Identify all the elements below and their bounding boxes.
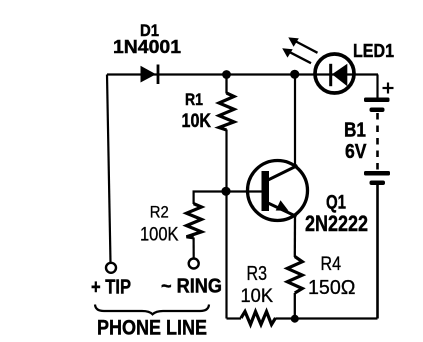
wire base xyxy=(227,190,263,192)
wire emitter to R4 xyxy=(294,214,297,257)
wire R2 to RING xyxy=(193,238,195,259)
svg-text:10K: 10K xyxy=(241,285,274,307)
wire R4 bottom xyxy=(294,293,296,319)
svg-text:PHONE LINE: PHONE LINE xyxy=(97,317,207,340)
node dot R1 top xyxy=(222,70,231,79)
svg-text:10K: 10K xyxy=(182,111,212,132)
node dot R4 bottom xyxy=(291,315,299,323)
resistor R3 xyxy=(241,312,276,325)
wire top rail xyxy=(107,73,378,75)
svg-text:150Ω: 150Ω xyxy=(308,277,356,299)
svg-text:B1: B1 xyxy=(344,119,366,142)
battery dashed middle xyxy=(376,113,379,170)
wire base drop xyxy=(225,192,227,319)
svg-text:R2: R2 xyxy=(150,203,169,221)
wire bottom rail left stub xyxy=(227,317,242,319)
resistor R1 xyxy=(219,93,234,130)
LED arrow 1 xyxy=(288,37,317,52)
svg-text:6V: 6V xyxy=(345,140,367,163)
svg-text:+ TIP: + TIP xyxy=(91,277,131,299)
brace phone line xyxy=(95,305,209,315)
battery B1 cell 1 xyxy=(364,98,390,113)
svg-text:R4: R4 xyxy=(321,253,342,275)
wire bottom rail right xyxy=(276,317,378,319)
svg-text:~ RING: ~ RING xyxy=(161,276,222,298)
wire R1 bottom to base node xyxy=(225,130,227,192)
node dot collector top xyxy=(290,70,299,79)
diode D1 xyxy=(141,65,159,85)
battery B1 plus sign xyxy=(383,83,394,94)
node dot base junction xyxy=(221,187,230,196)
terminal TIP circle xyxy=(106,263,116,273)
wire battery bottom vertical xyxy=(376,185,379,319)
svg-text:2N2222: 2N2222 xyxy=(305,211,368,236)
wire R2 branch xyxy=(194,192,227,205)
wire LED to battery corner xyxy=(376,75,378,99)
wire collector vertical xyxy=(294,75,296,167)
svg-text:R3: R3 xyxy=(247,263,268,285)
transistor Q1 xyxy=(248,161,308,221)
terminal RING circle xyxy=(189,259,199,269)
LED1 xyxy=(315,54,354,93)
resistor R4 xyxy=(287,257,302,294)
resistor R2 xyxy=(187,204,202,238)
LED arrow 2 xyxy=(282,48,311,63)
battery B1 cell 2 xyxy=(364,171,390,185)
wire R1 top stub xyxy=(225,75,227,94)
svg-text:LED1: LED1 xyxy=(353,41,394,61)
svg-text:R1: R1 xyxy=(185,91,203,109)
svg-text:100K: 100K xyxy=(140,224,179,246)
svg-text:1N4001: 1N4001 xyxy=(113,37,181,57)
wire left vertical (TIP branch) xyxy=(107,75,111,263)
